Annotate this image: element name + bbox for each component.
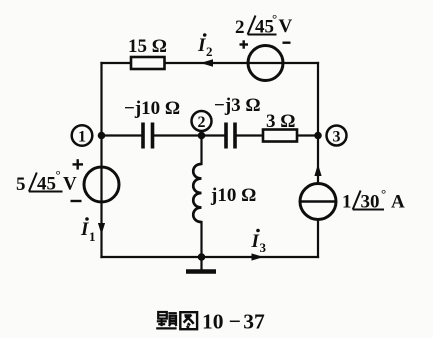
svg-text:I: I	[197, 35, 206, 56]
svg-text:°: °	[381, 186, 386, 201]
svg-text:5: 5	[16, 174, 26, 195]
svg-text:j10 Ω: j10 Ω	[210, 185, 256, 206]
svg-text:2: 2	[206, 44, 213, 59]
svg-text:°: °	[56, 167, 61, 182]
svg-text:3 Ω: 3 Ω	[266, 111, 295, 132]
svg-text:I: I	[251, 231, 260, 252]
svg-text:1: 1	[342, 192, 352, 213]
svg-text:−j10 Ω: −j10 Ω	[124, 98, 180, 119]
svg-text:−j3 Ω: −j3 Ω	[214, 95, 261, 116]
svg-text:37: 37	[243, 309, 265, 333]
svg-text:1: 1	[78, 129, 86, 146]
svg-text:2: 2	[235, 17, 245, 38]
svg-text:15 Ω: 15 Ω	[128, 36, 167, 57]
svg-text:2: 2	[198, 114, 206, 131]
svg-text:V: V	[279, 16, 293, 37]
svg-text:3: 3	[333, 129, 341, 146]
svg-text:A: A	[391, 192, 405, 213]
svg-text:−: −	[229, 309, 241, 333]
svg-text:1: 1	[89, 229, 96, 244]
svg-text:V: V	[63, 173, 77, 194]
svg-text:I: I	[80, 219, 89, 240]
svg-text:3: 3	[260, 240, 267, 255]
svg-text:10: 10	[202, 309, 224, 333]
svg-text:°: °	[272, 11, 277, 26]
